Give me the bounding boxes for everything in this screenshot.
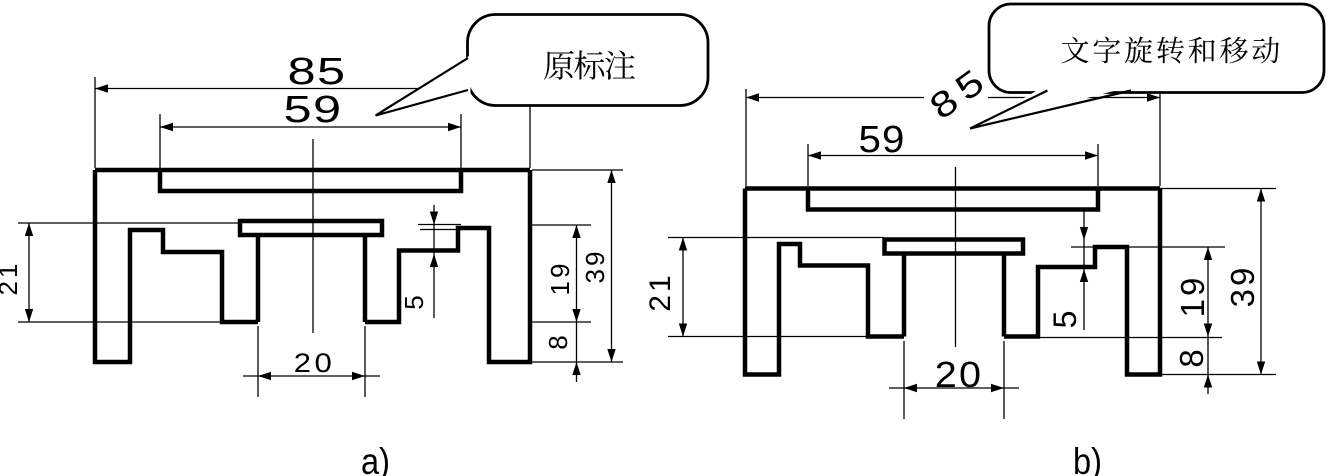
svg-text:a): a): [361, 441, 390, 476]
svg-text:21: 21: [0, 261, 23, 296]
svg-text:59: 59: [859, 119, 906, 161]
svg-text:8: 8: [543, 332, 573, 349]
svg-text:20: 20: [935, 356, 983, 396]
svg-text:19: 19: [545, 261, 575, 296]
svg-text:8: 8: [1173, 346, 1210, 367]
svg-text:21: 21: [644, 272, 677, 311]
svg-text:39: 39: [580, 249, 610, 284]
svg-text:5: 5: [399, 292, 429, 309]
svg-text:39: 39: [1224, 265, 1261, 308]
svg-text:5: 5: [1047, 308, 1083, 329]
svg-text:59: 59: [284, 89, 343, 131]
svg-text:20: 20: [294, 349, 335, 379]
svg-text:85: 85: [288, 51, 347, 93]
svg-text:19: 19: [1174, 275, 1211, 318]
svg-text:b): b): [1073, 441, 1102, 476]
